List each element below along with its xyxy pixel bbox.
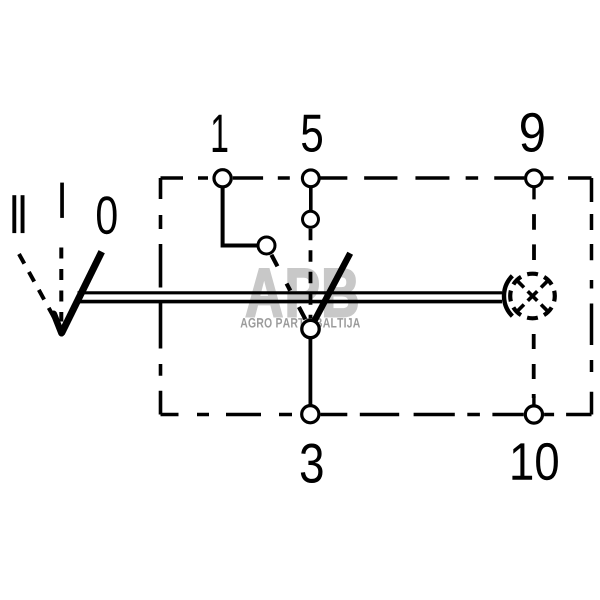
pivot circle of blade: [302, 320, 319, 337]
label terminal 3: [301, 444, 323, 484]
switch housing dash-dot box : top border terminal 5 to terminal 9: [320, 176, 524, 179]
label terminal 5: [302, 115, 322, 152]
switch housing dash-dot box : top border terminal 1 to terminal 5: [233, 176, 301, 179]
actuator arrow barb: [54, 314, 62, 334]
dashed wire lamp to terminal 10: [532, 321, 536, 399]
label position I: [60, 183, 64, 218]
switch housing dash-dot box : bottom border corner to terminal 3: [161, 413, 301, 416]
label position 0: [97, 196, 117, 234]
actuator dashed position I: [59, 248, 63, 322]
switch housing dash-dot box : bottom border terminal 10 to corner: [544, 413, 591, 416]
switch housing dash-dot box : right border: [590, 178, 594, 415]
illumination lamp dashed circle: [510, 274, 555, 319]
contact circle below terminal 5: [303, 211, 319, 227]
label position II (bar 1): [12, 195, 16, 233]
switch housing dash-dot box : left border: [159, 178, 163, 415]
mechanical coupling double line : upper: [78, 291, 503, 294]
mechanical coupling double line : lower: [76, 300, 503, 304]
terminal 9 circle: [526, 170, 543, 187]
wire stub below terminal 9: [532, 187, 535, 200]
dashed wire: contact position I (terminal 5 branch) down to pivot: [309, 229, 313, 319]
switch housing dash-dot box : top border corner to terminal 1: [161, 176, 213, 179]
watermark logo APB: [247, 269, 358, 317]
illumination lamp dashed X diagonal NE-SW: [516, 280, 549, 313]
wire pivot down to terminal 3: [308, 338, 312, 405]
label terminal 9: [521, 113, 544, 152]
switch housing dash-dot box : bottom border terminal 3 to terminal 10: [321, 413, 524, 416]
label terminal 1: [213, 115, 228, 152]
actuator lever (position 0) with arrow: [62, 252, 102, 334]
watermark tagline AGRO PARTS BALTIJA: [241, 318, 361, 328]
terminal 5 circle: [302, 170, 319, 187]
terminal 10 circle: [525, 406, 542, 423]
dashed blade position II: fixed contact of terminal 1 to pivot: [271, 255, 305, 319]
terminal 1 circle: [214, 170, 231, 187]
label position II (bar 2): [21, 195, 25, 233]
wire from terminal 1 down and right to fixed contact: [223, 187, 257, 246]
dashed wire terminal 9 to lamp: [532, 199, 536, 271]
label terminal 10: [512, 443, 558, 480]
wire stub above terminal 10: [532, 396, 535, 406]
fixed contact circle (from terminal 1): [258, 237, 275, 254]
lamp housing arc: [504, 276, 512, 316]
wire stub below terminal 5: [309, 186, 313, 212]
illumination lamp dashed X diagonal NW-SE: [516, 280, 549, 313]
terminal 3 circle: [302, 406, 319, 423]
switch housing dash-dot box : top border terminal 9 to corner: [544, 176, 592, 179]
actuator dashed position II: [19, 254, 59, 327]
switch blade (solid, position 0): [314, 253, 350, 322]
